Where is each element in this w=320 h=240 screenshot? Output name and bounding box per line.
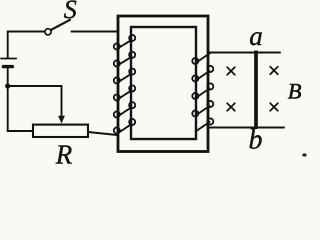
battery cell bbox=[1, 58, 16, 60]
wire rail a bbox=[209, 52, 281, 54]
switch S bbox=[45, 29, 51, 35]
field cross x4 bbox=[270, 103, 278, 111]
field cross x2 bbox=[270, 67, 278, 75]
primary coil L1 loops left edge bbox=[114, 43, 120, 133]
wire switch to primary coil bbox=[72, 31, 118, 33]
svg-text:R: R bbox=[55, 140, 73, 164]
field cross x1 bbox=[227, 67, 235, 75]
conducting bar ab bbox=[254, 51, 258, 130]
svg-text:B: B bbox=[288, 78, 302, 103]
field cross x3 bbox=[227, 103, 235, 111]
node junction dot bbox=[5, 83, 10, 88]
wire battery to bottom-left corner bbox=[8, 67, 33, 131]
primary coil L1 turns (diagonals) bbox=[118, 40, 132, 134]
wire top-left rail (corner to switch) bbox=[8, 32, 45, 58]
secondary coil L2 loops left edge bbox=[192, 58, 198, 117]
resistor R (rheostat box) bbox=[33, 125, 88, 137]
secondary coil L2 loops right edge bbox=[207, 66, 213, 125]
stray ink dot bbox=[302, 153, 306, 156]
svg-text:a: a bbox=[249, 21, 262, 51]
svg-text:S: S bbox=[64, 0, 77, 24]
wire R to primary coil bbox=[88, 132, 117, 135]
transformer core outer bbox=[118, 16, 208, 152]
slider arrowhead bbox=[58, 116, 65, 124]
wire junction to slider arrow bbox=[8, 86, 62, 118]
transformer core inner bbox=[131, 27, 196, 139]
wire rail b bbox=[209, 127, 285, 129]
svg-text:b: b bbox=[249, 125, 263, 156]
primary coil L1 loops right edge bbox=[129, 35, 135, 125]
secondary coil L2 turns (diagonals) bbox=[196, 54, 210, 132]
